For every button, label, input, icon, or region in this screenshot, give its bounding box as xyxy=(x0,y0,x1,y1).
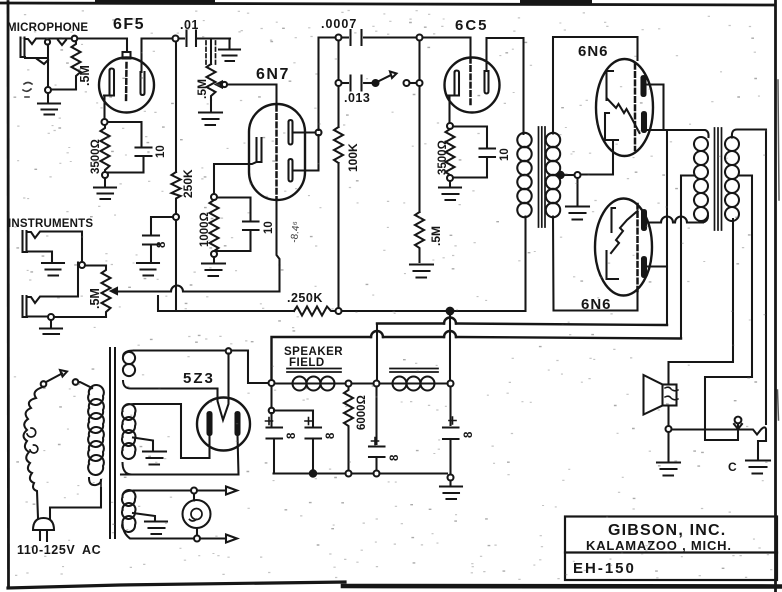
wire wiper to 6N7 grid line (y291) xyxy=(117,265,280,292)
5Z3 plate 2 xyxy=(236,412,240,435)
interstage core xyxy=(539,127,546,227)
node mic/5M top xyxy=(72,36,78,42)
wire mic top to 6F5 grid xyxy=(74,39,127,53)
tube 6N7 envelope xyxy=(249,104,305,200)
wire node down tone branch xyxy=(337,41,339,81)
svg-text:6000Ω: 6000Ω xyxy=(356,395,368,430)
OPT CT to tip terminal xyxy=(705,377,752,440)
6C5 cathode xyxy=(448,71,459,96)
node .013 left xyxy=(336,80,342,86)
ground G2 6F5 cathode xyxy=(94,178,116,199)
heater bottom lead xyxy=(134,537,194,539)
resistor 100K xyxy=(334,127,343,163)
capacitor 10 (6N7 bypass) xyxy=(217,198,259,252)
6N7 plate wire up to .0007 xyxy=(319,38,338,131)
instruments jack 1 xyxy=(23,231,83,262)
filter ground bus xyxy=(274,472,448,474)
wire node to 5M bottom xyxy=(51,88,76,90)
svg-text:10: 10 xyxy=(499,148,511,161)
6F5 plate xyxy=(141,72,145,95)
ground G10 .5M xyxy=(410,265,433,278)
node .013 right xyxy=(417,80,423,86)
6C5 plate wire to interstage xyxy=(487,38,524,134)
svg-text:10: 10 xyxy=(155,145,167,158)
wire node to pot top xyxy=(85,264,106,266)
ground G5 1000 ohm xyxy=(202,257,225,276)
pilot lamp xyxy=(183,494,211,536)
HV center tap xyxy=(133,438,153,452)
wire driver plates to bus324 xyxy=(666,130,668,325)
ground G6 8cap xyxy=(137,263,159,276)
tone switch xyxy=(373,72,417,87)
wire pot wiper to 6N7 grid xyxy=(227,85,277,105)
svg-text:6F5: 6F5 xyxy=(113,16,145,33)
power switch xyxy=(41,370,79,387)
capacitor .0007 xyxy=(342,30,417,45)
svg-text:.5M: .5M xyxy=(429,226,443,246)
6N7 plate 2 lead xyxy=(293,135,319,171)
tube 6N6 lower envelope xyxy=(595,199,652,296)
6N7 plate 1 lead xyxy=(293,131,319,133)
5Z3 plate 1 xyxy=(208,412,212,435)
wire x450 vertical node311 to filter xyxy=(449,315,452,426)
interstage secondary CT node (filled) xyxy=(557,172,563,178)
title block xyxy=(565,517,777,581)
resistor .5M (6C5 grid leak) xyxy=(415,212,424,262)
pot 5M wiper arrow xyxy=(111,288,117,294)
wire .0007 node down to .5M xyxy=(418,41,420,213)
node B+ subrail x450 (filled) xyxy=(447,308,454,315)
6N6 lower plate 1 lead to OPT primary bottom xyxy=(644,216,708,223)
svg-text:8: 8 xyxy=(286,432,298,439)
svg-text:.5M: .5M xyxy=(88,288,102,309)
node choke2 left xyxy=(374,381,380,387)
6C5 plate xyxy=(485,71,489,94)
capacitor 8 (first stage decoupling) xyxy=(143,217,173,262)
hop bus337 over x450 xyxy=(444,331,456,337)
svg-text:8: 8 xyxy=(156,241,168,248)
instruments jack 2 xyxy=(23,263,79,318)
svg-text:10: 10 xyxy=(263,221,275,234)
resistor 3500 ohm (6F5 cathode) xyxy=(101,125,110,172)
6N6 upper plate 1 lead xyxy=(646,85,664,131)
node mic ground junction xyxy=(45,87,51,93)
hop over x667 xyxy=(661,217,673,223)
node jack2 sleeve / pot ground xyxy=(48,314,54,320)
plus mark C1 xyxy=(266,418,273,425)
terminal hook to ground xyxy=(758,441,766,460)
wire node to pot bottom xyxy=(54,316,106,318)
svg-text:5Z3: 5Z3 xyxy=(183,370,215,387)
ground G14 speaker xyxy=(657,432,680,476)
node C2 bottom (filled) xyxy=(310,470,316,476)
plus mark C2 xyxy=(305,418,312,425)
svg-text:.5M: .5M xyxy=(195,79,209,99)
resistor 250K (horizontal) xyxy=(294,307,335,316)
6N6 upper plate 1 xyxy=(642,76,646,96)
speaker voice coil bottom xyxy=(667,406,669,427)
OPT secondary bottom lead to speaker xyxy=(669,219,734,384)
bus337 (raw B+ to OPT CT) xyxy=(272,337,682,380)
capacitor 8 (filter C3) xyxy=(369,447,385,471)
ground G8 instruments xyxy=(40,320,62,334)
ground G12 HV CT xyxy=(143,452,166,465)
noise squiggle marks xyxy=(23,83,32,98)
wire C1 drop xyxy=(270,386,272,408)
5V winding xyxy=(123,351,135,389)
wire 250K down to B+ subrail xyxy=(175,220,177,311)
capacitor 10 (6F5 bypass) xyxy=(108,122,152,173)
mains plug xyxy=(33,518,54,541)
resistor 3500 ohm (6C5 cathode) xyxy=(446,129,455,175)
resistor 5M (mic grid) xyxy=(72,41,81,89)
6C5 cathode lead xyxy=(448,96,450,124)
6F5 grid cap xyxy=(123,52,131,59)
node speaker return xyxy=(666,426,672,432)
svg-text:250K: 250K xyxy=(181,169,195,198)
node instruments junction xyxy=(79,262,85,268)
speaker field choke xyxy=(275,369,346,391)
svg-text:GIBSON, INC.: GIBSON, INC. xyxy=(608,522,726,539)
interstage secondary bottom to lower 6N6 grid xyxy=(553,217,638,311)
plus mark C3 xyxy=(372,438,379,445)
svg-text:3500Ω: 3500Ω xyxy=(437,140,449,175)
potentiometer 5M (instruments) xyxy=(102,266,111,318)
resistor 6000 ohm xyxy=(344,387,353,471)
svg-text:1000Ω: 1000Ω xyxy=(199,212,211,247)
OPT secondary CT lead xyxy=(740,176,753,378)
power transformer primary coil xyxy=(88,385,104,485)
svg-text:INSTRUMENTS: INSTRUMENTS xyxy=(8,218,93,230)
svg-text:.0007: .0007 xyxy=(321,17,357,31)
node 1000 ohm bottom xyxy=(211,251,217,257)
svg-text:FIELD: FIELD xyxy=(289,357,325,369)
6N6 lower grid (dashed) xyxy=(636,204,639,291)
shielded wire dashes xyxy=(205,41,207,66)
capacitor 8 (filter C2) xyxy=(306,428,322,471)
wire .0007 node to 6C5 grid xyxy=(423,38,471,58)
svg-text:.250K: .250K xyxy=(287,291,323,305)
microphone jack xyxy=(21,38,75,88)
node C3 bottom xyxy=(374,471,380,477)
svg-text:C: C xyxy=(728,460,737,474)
6N6 upper cathode 2 xyxy=(605,113,618,140)
6N7 cathode lead xyxy=(214,162,257,194)
svg-text:6N7: 6N7 xyxy=(256,66,290,83)
B+ subrail left stub xyxy=(158,296,294,311)
interstage secondary top to 6N6 grid xyxy=(553,37,638,134)
node CT ground xyxy=(575,172,581,178)
bottom page edge line xyxy=(8,582,345,588)
6N6 upper cathode 1 xyxy=(607,71,614,100)
5Z3 plate 2 lead to HV bottom xyxy=(121,435,239,475)
CT wire to ground junction xyxy=(564,174,575,176)
5Z3 filament xyxy=(218,354,229,421)
resistor 1000 ohm (6N7 cathode) xyxy=(210,200,219,251)
svg-text:EH-150: EH-150 xyxy=(573,560,636,577)
node 6F5 cathode top xyxy=(102,119,108,125)
hop bus324 over x450 xyxy=(444,318,456,324)
upper 6N6 cathode lead xyxy=(581,142,614,175)
OPT primary CT wire down xyxy=(681,176,694,339)
node 6F5 cathode bottom xyxy=(102,172,108,178)
output transformer secondary coil xyxy=(725,137,739,221)
hop bus337 over x377 xyxy=(371,331,383,337)
ground G7 jack1 xyxy=(42,263,64,276)
6N6 lower plate 1 xyxy=(642,210,646,230)
top edge dark segments xyxy=(95,0,215,5)
capacitor 10 (6C5 bypass) xyxy=(453,127,495,178)
svg-text:.5M: .5M xyxy=(78,65,92,86)
node B+ subrail / 100K xyxy=(336,308,342,314)
6C5 grid (dashed) xyxy=(469,58,472,104)
6N6 lower internal resistor diagonal xyxy=(611,211,638,253)
6N6 upper plate 2 xyxy=(642,112,646,132)
heater top lead xyxy=(134,489,191,491)
svg-text:6C5: 6C5 xyxy=(455,17,489,34)
svg-text:.013: .013 xyxy=(344,91,370,105)
resistor 250K (vertical) xyxy=(172,42,181,215)
output transformer core xyxy=(715,128,722,230)
ground G13 heater CT xyxy=(145,522,167,535)
heater arrow top xyxy=(197,487,237,495)
primary bottom lead xyxy=(100,480,102,488)
node C4 bottom xyxy=(448,475,454,481)
svg-text:6N6: 6N6 xyxy=(581,296,612,313)
svg-text:100K: 100K xyxy=(346,143,360,172)
ground G15 C terminal xyxy=(746,461,770,474)
mains cord wavy lead xyxy=(24,387,43,518)
wire speaker node to output terminals xyxy=(672,427,767,441)
node 250K / 8 cap xyxy=(173,214,179,220)
6N7 grid return below tube xyxy=(277,198,280,265)
5V winding bottom lead xyxy=(134,387,218,389)
interstage secondary coil xyxy=(546,133,560,217)
node 6000 top xyxy=(346,381,352,387)
primary top lead to switch xyxy=(78,382,93,388)
ground G11 interstage CT xyxy=(566,178,589,220)
capacitor .013 xyxy=(342,76,373,91)
svg-text:110-125V AC: 110-125V AC xyxy=(17,543,101,557)
5V winding top lead to filament xyxy=(134,351,269,384)
speaker xyxy=(644,375,679,415)
wire 100K to B+ subrail xyxy=(337,163,339,308)
node 6000 bottom xyxy=(346,471,352,477)
svg-text:MICROPHONE: MICROPHONE xyxy=(7,22,88,34)
svg-text:KALAMAZOO , MICH.: KALAMAZOO , MICH. xyxy=(586,538,732,553)
svg-text:3500Ω: 3500Ω xyxy=(90,139,102,174)
filter choke xyxy=(380,369,448,391)
wire x376 vertical bus324 to filter xyxy=(375,387,377,445)
node heater bottom xyxy=(194,536,200,542)
node 5Z3 filament xyxy=(226,348,232,354)
node .01/250K top xyxy=(173,36,179,42)
plus mark C4 xyxy=(449,417,456,424)
tube 6F5 envelope xyxy=(99,58,154,113)
bus324 (B+ to driver plates) xyxy=(377,324,667,326)
ground G9 6C5 cathode xyxy=(439,181,461,200)
shield ground stub G3 xyxy=(219,39,240,62)
wire 100K drop xyxy=(337,86,339,127)
capacitor .01 xyxy=(179,31,231,47)
node 6N7 plates xyxy=(316,130,322,136)
hop over 250K drop xyxy=(171,286,183,292)
wire C2 branch xyxy=(274,411,313,427)
hop over x681 xyxy=(675,217,687,223)
6N6 upper plate line to OPT primary top xyxy=(644,130,709,137)
6N7 plate 1 xyxy=(289,120,293,145)
svg-text:6N6: 6N6 xyxy=(578,43,609,60)
HV winding xyxy=(122,404,135,475)
page edge noise right xyxy=(778,80,780,420)
node 1000 ohm top xyxy=(211,194,217,200)
node 3500 bottom (6C5) xyxy=(447,175,453,181)
node heater top xyxy=(191,488,197,494)
heater winding xyxy=(122,490,135,538)
output transformer primary coil xyxy=(694,137,708,223)
ground G1 mic xyxy=(38,93,60,115)
6N6 lower cathode 1 xyxy=(612,208,616,232)
6N6 lower cathode 2 xyxy=(607,251,619,279)
6N7 plate 2 xyxy=(289,159,293,182)
heater CT tap xyxy=(133,513,155,521)
node C1/C2 tee xyxy=(269,408,275,414)
mains second lead xyxy=(50,488,101,519)
tube 5Z3 envelope xyxy=(197,398,250,451)
interstage transformer primary coil xyxy=(517,133,531,217)
6F5 cathode xyxy=(104,69,114,96)
wire subrail node to 450 xyxy=(342,310,447,312)
6N6 lower plate 2 lead xyxy=(644,265,667,267)
node .0007 left xyxy=(336,35,342,41)
6N6 upper internal resistor diagonal xyxy=(608,99,640,133)
cord loop knot xyxy=(27,428,38,453)
ground G4 pot bottom xyxy=(199,100,222,125)
wire subrail to interstage primary bottom xyxy=(454,217,526,312)
tube 6N6 upper envelope xyxy=(596,59,653,156)
5Z3 plate 1 lead to HV top xyxy=(134,404,210,458)
node B+ rectifier output xyxy=(269,380,275,386)
6F5 grid (dashed) xyxy=(125,63,128,103)
power transformer core xyxy=(110,348,115,538)
potentiometer .5M (mic volume) xyxy=(207,64,216,100)
wire to x376 xyxy=(352,382,374,384)
6N7 grid (dashed) xyxy=(275,106,278,198)
node 6C5 cathode top xyxy=(447,123,453,129)
heater arrow bottom xyxy=(200,535,237,543)
wire .01 to pot xyxy=(210,39,212,65)
tip terminal xyxy=(734,417,742,429)
capacitor 8 (filter C1) xyxy=(267,413,283,474)
node choke2 right xyxy=(448,381,454,387)
6F5 plate wire to top xyxy=(142,39,176,73)
node .0007 right xyxy=(417,35,423,41)
tube 6C5 envelope xyxy=(445,58,500,113)
capacitor 8 (filter C4) xyxy=(443,428,459,475)
svg-text:8: 8 xyxy=(463,431,475,438)
OPT secondary top lead xyxy=(732,130,766,425)
pot wiper arrow xyxy=(216,82,222,88)
svg-text:8: 8 xyxy=(389,454,401,461)
6N6 lower plate 2 xyxy=(642,257,646,277)
6N7 cathode xyxy=(257,138,262,162)
6N6 upper grid (dashed) xyxy=(634,64,637,150)
ground G16 filter xyxy=(440,481,462,500)
